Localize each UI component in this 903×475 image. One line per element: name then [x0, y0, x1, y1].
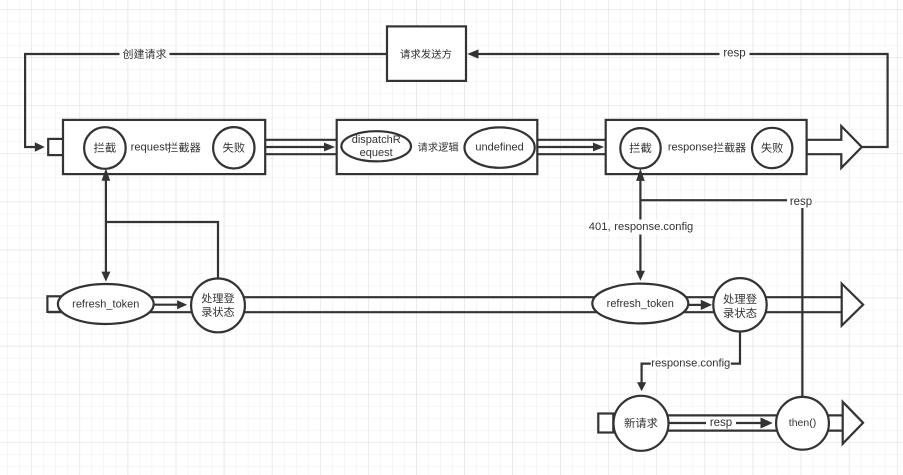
svg-text:then(): then()	[789, 417, 816, 429]
svg-text:401,: 401,	[589, 221, 611, 233]
svg-text:equest: equest	[360, 147, 393, 159]
svg-text:request: request	[131, 142, 169, 154]
svg-text:response: response	[668, 142, 713, 154]
svg-text:response.config: response.config	[651, 357, 730, 369]
svg-text:refresh_token: refresh_token	[607, 298, 674, 310]
svg-text:resp: resp	[790, 196, 812, 208]
svg-text:undefined: undefined	[475, 142, 523, 154]
svg-text:resp: resp	[723, 48, 745, 60]
svg-text:refresh_token: refresh_token	[72, 298, 139, 310]
svg-text:resp: resp	[710, 417, 732, 429]
svg-text:response.config: response.config	[614, 221, 693, 233]
svg-text:dispatchR: dispatchR	[352, 134, 401, 146]
